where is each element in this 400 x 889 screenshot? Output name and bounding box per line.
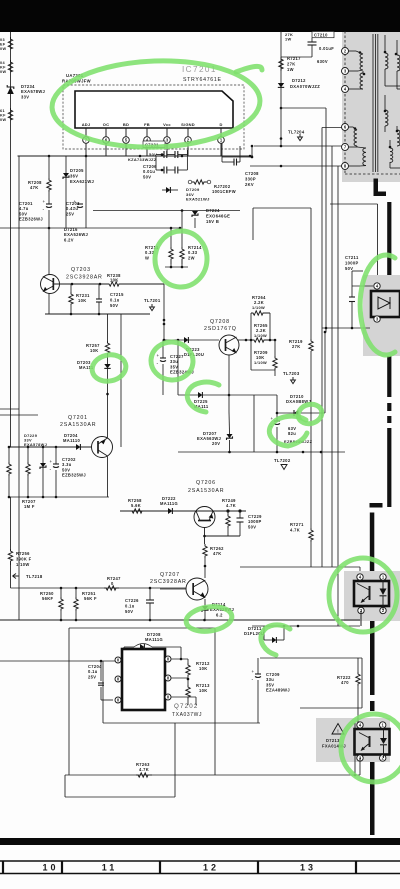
svg-text:2SD1767Q: 2SD1767Q	[204, 326, 237, 332]
svg-text:TL7218: TL7218	[26, 574, 43, 579]
svg-text:2KV: 2KV	[245, 182, 254, 187]
svg-text:03: 03	[0, 38, 5, 42]
svg-text:TL7203: TL7203	[283, 371, 300, 376]
svg-text:EZB325WJ: EZB325WJ	[62, 473, 86, 478]
svg-text:!: !	[337, 728, 338, 733]
svg-text:27K: 27K	[287, 61, 296, 66]
svg-text:W: W	[145, 255, 149, 260]
svg-text:13: 13	[300, 863, 316, 873]
svg-text:BD: BD	[123, 122, 129, 127]
svg-text:5.6K: 5.6K	[131, 503, 141, 508]
svg-text:10K: 10K	[90, 348, 99, 353]
svg-text:KF: KF	[0, 114, 6, 118]
svg-text:MA111G: MA111G	[160, 501, 178, 506]
svg-text:STRY64761E: STRY64761E	[183, 77, 222, 83]
svg-text:Q7201: Q7201	[68, 415, 88, 421]
svg-text:50V: 50V	[125, 609, 133, 614]
svg-text:Q7206: Q7206	[196, 480, 216, 486]
svg-text:OC: OC	[103, 122, 109, 127]
svg-text:-: -	[50, 467, 52, 473]
svg-text:EF: EF	[0, 43, 6, 47]
svg-text:1/10W: 1/10W	[16, 562, 30, 567]
svg-text:Q7208: Q7208	[210, 319, 230, 325]
svg-text:R7271: R7271	[290, 522, 304, 527]
svg-text:TXA037WJ: TXA037WJ	[172, 712, 202, 718]
svg-text:330P: 330P	[245, 176, 256, 181]
svg-text:630V: 630V	[317, 59, 328, 64]
svg-text:33V: 33V	[21, 94, 29, 99]
svg-text:0: 0	[111, 581, 114, 586]
svg-text:TL7204: TL7204	[288, 130, 305, 135]
svg-text:25V: 25V	[88, 674, 96, 679]
svg-text:ADJ: ADJ	[82, 122, 91, 127]
svg-text:MA111G: MA111G	[145, 637, 163, 642]
svg-text:1/10W: 1/10W	[254, 333, 267, 338]
svg-text:S/GND: S/GND	[181, 122, 195, 127]
svg-text:Q7203: Q7203	[71, 267, 91, 273]
svg-text:1W: 1W	[285, 37, 292, 42]
svg-text:11: 11	[102, 863, 118, 873]
svg-text:50V: 50V	[143, 174, 151, 179]
svg-text:0.01uF: 0.01uF	[319, 46, 334, 51]
svg-text:2SC3928AR: 2SC3928AR	[150, 579, 187, 585]
svg-text:470: 470	[341, 680, 349, 685]
svg-text:15V B: 15V B	[206, 219, 219, 224]
svg-text:61: 61	[0, 109, 5, 113]
svg-text:1/10W: 1/10W	[252, 305, 265, 310]
svg-text:D7205: D7205	[70, 168, 84, 173]
svg-text:Vcc: Vcc	[163, 122, 171, 127]
svg-text:EZB326WJ: EZB326WJ	[19, 217, 43, 222]
svg-text:D7212: D7212	[292, 78, 306, 83]
svg-text:EZA489WJ: EZA489WJ	[266, 688, 290, 693]
svg-text:47K: 47K	[30, 185, 39, 190]
svg-text:47K: 47K	[213, 551, 222, 556]
svg-text:0W: 0W	[0, 47, 6, 51]
svg-text:82u: 82u	[288, 431, 296, 436]
svg-text:+: +	[157, 353, 160, 358]
svg-text:-: -	[252, 677, 254, 683]
svg-text:1001CEFW: 1001CEFW	[212, 189, 236, 194]
svg-text:6.2: 6.2	[216, 613, 223, 618]
svg-text:C7226: C7226	[125, 598, 139, 603]
svg-text:56KF: 56KF	[42, 596, 54, 601]
svg-text:-: -	[157, 361, 159, 367]
svg-text:0.1u: 0.1u	[125, 603, 135, 608]
svg-text:27K: 27K	[292, 344, 301, 349]
svg-text:10: 10	[42, 863, 58, 873]
svg-text:390K F: 390K F	[16, 556, 32, 561]
svg-text:C7210: C7210	[314, 33, 328, 38]
svg-text:2SA1530AR: 2SA1530AR	[60, 422, 96, 428]
svg-text:0W: 0W	[0, 118, 6, 122]
svg-text:MA1110: MA1110	[63, 438, 80, 443]
svg-text:TL7201: TL7201	[144, 298, 161, 303]
svg-text:-: -	[43, 207, 45, 213]
svg-text:C7208: C7208	[245, 171, 259, 176]
svg-text:KZA733WJZZ: KZA733WJZZ	[128, 157, 157, 162]
svg-text:10K: 10K	[199, 666, 208, 671]
svg-text:R7247: R7247	[107, 576, 121, 581]
svg-text:1M F: 1M F	[24, 504, 35, 509]
svg-text:10K: 10K	[110, 278, 119, 283]
svg-text:1000P: 1000P	[345, 260, 359, 265]
svg-text:DXA070WJZZ: DXA070WJZZ	[290, 84, 320, 89]
svg-text:4.7K: 4.7K	[226, 503, 236, 508]
svg-text:50V: 50V	[248, 524, 256, 529]
svg-text:6.2V: 6.2V	[64, 237, 74, 242]
svg-text:C7215: C7215	[110, 292, 124, 297]
svg-text:+: +	[50, 459, 53, 464]
svg-text:+: +	[43, 199, 46, 204]
svg-text:D: D	[219, 122, 222, 127]
svg-text:FB: FB	[144, 122, 150, 127]
svg-text:2SC3928AR: 2SC3928AR	[66, 275, 103, 281]
svg-text:0.1u: 0.1u	[110, 297, 120, 302]
svg-text:R7256: R7256	[16, 551, 30, 556]
svg-text:1/10W: 1/10W	[254, 360, 267, 365]
svg-text:4.7K: 4.7K	[290, 527, 300, 532]
svg-text:EXA578WJ: EXA578WJ	[24, 442, 47, 447]
svg-text:04: 04	[0, 61, 5, 65]
svg-text:Q7207: Q7207	[160, 572, 180, 578]
svg-text:50V: 50V	[110, 303, 118, 308]
svg-text:4.7K: 4.7K	[139, 767, 149, 772]
svg-text:10K: 10K	[78, 298, 87, 303]
svg-text:20V: 20V	[212, 441, 220, 446]
svg-text:10K: 10K	[199, 688, 208, 693]
svg-text:2W: 2W	[188, 255, 195, 260]
svg-text:EXO646GE: EXO646GE	[206, 213, 230, 218]
svg-text:0W: 0W	[0, 70, 6, 74]
svg-text:1W: 1W	[287, 67, 294, 72]
svg-text:D7224: D7224	[206, 208, 220, 213]
svg-text:EXA521WJ: EXA521WJ	[186, 197, 210, 202]
svg-text:EXA621WJ: EXA621WJ	[70, 179, 94, 184]
svg-text:36V: 36V	[70, 173, 78, 178]
svg-text:50V: 50V	[345, 266, 353, 271]
svg-text:25V: 25V	[66, 211, 74, 216]
svg-text:TL7202: TL7202	[274, 458, 291, 463]
svg-text:2SA1530AR: 2SA1530AR	[188, 488, 224, 494]
svg-text:Q7202: Q7202	[174, 703, 199, 710]
svg-text:+: +	[252, 669, 255, 674]
svg-text:56K F: 56K F	[84, 596, 97, 601]
svg-text:12: 12	[203, 863, 219, 873]
svg-text:D7213: D7213	[326, 738, 340, 743]
svg-text:C7211: C7211	[345, 255, 359, 260]
svg-text:KF: KF	[0, 66, 6, 70]
